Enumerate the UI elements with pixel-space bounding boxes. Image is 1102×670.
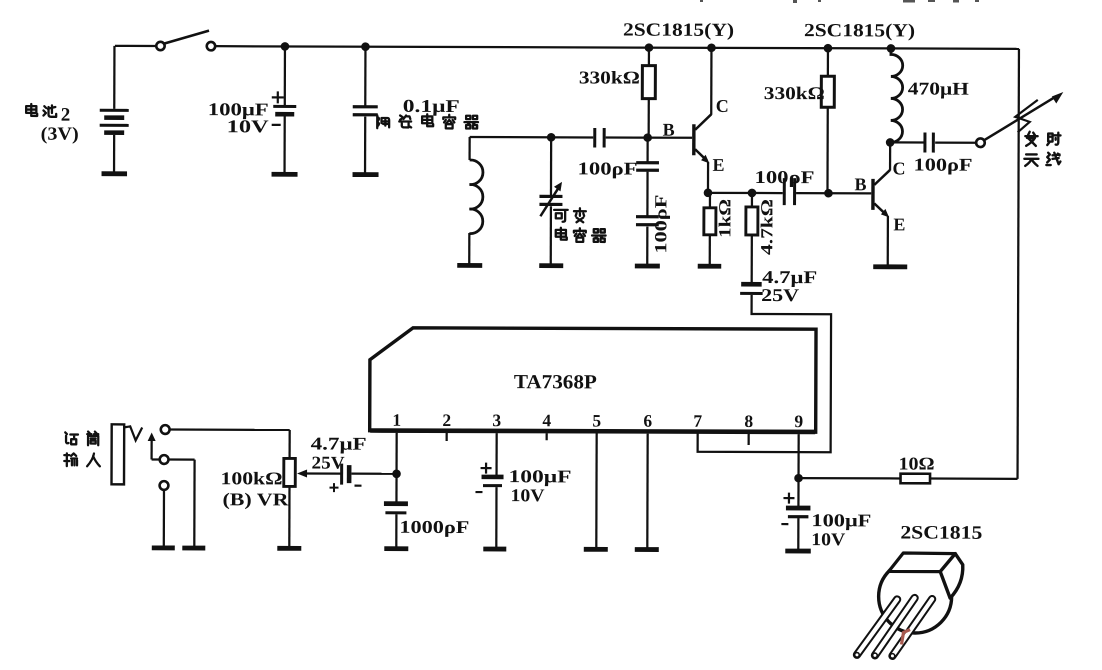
inductor L1 tank coil — [468, 137, 470, 160]
wire jack ring to ground — [152, 458, 160, 460]
label mic huatong shuru — [65, 432, 78, 444]
svg-text:4: 4 — [542, 410, 551, 430]
svg-text:B: B — [663, 120, 675, 140]
capacitor C2 0.1uF ceramic — [361, 42, 370, 51]
pin stub 4 — [546, 433, 548, 440]
label antenna fashe tianxian — [1025, 132, 1037, 146]
wire top supply rail — [115, 45, 156, 47]
svg-text:2SC1815: 2SC1815 — [900, 522, 982, 543]
microphone jack connector — [112, 424, 125, 484]
capacitor C12 100uF 10V pin9 — [797, 478, 799, 506]
svg-text:10V: 10V — [227, 116, 269, 136]
ground Q2 emitter — [873, 264, 907, 269]
svg-text:7: 7 — [693, 411, 702, 431]
ground C11 — [483, 547, 506, 552]
capacitor C9 1000pF — [395, 474, 397, 502]
plus minus C11 — [481, 467, 492, 469]
ground C2 — [353, 172, 379, 177]
ground C1 — [272, 172, 298, 177]
battery B1 3V — [113, 46, 115, 109]
wire pin9 node — [797, 434, 799, 478]
svg-text:100kΩ: 100kΩ — [220, 468, 282, 488]
svg-text:8: 8 — [744, 411, 753, 431]
ground C12 — [785, 549, 811, 554]
ground battery — [102, 171, 128, 176]
potentiometer VR 100k — [288, 430, 290, 458]
ground L1 — [457, 263, 482, 268]
wire pin6 to ground — [646, 434, 649, 548]
wire right supply drop — [1018, 49, 1019, 479]
svg-text:25V: 25V — [761, 285, 799, 305]
variable capacitor CV kebian — [550, 137, 552, 195]
svg-text:2: 2 — [442, 410, 451, 430]
jack terminal circles — [161, 425, 170, 434]
ground C9 — [384, 546, 408, 551]
pin stub 8 — [748, 434, 750, 445]
antenna terminal — [976, 138, 985, 147]
svg-text:E: E — [893, 214, 905, 234]
transistor Q1 2SC1815 — [692, 124, 696, 155]
wire pin1 — [395, 433, 397, 474]
svg-text:(3V): (3V) — [41, 125, 79, 145]
antenna zigzag — [1015, 100, 1038, 133]
svg-text:B: B — [854, 174, 866, 194]
svg-text:470μH: 470μH — [908, 78, 969, 98]
plus minus C12 — [783, 497, 794, 499]
svg-text:25V: 25V — [312, 453, 345, 473]
svg-text:100ρF: 100ρF — [914, 155, 973, 175]
resistor R1 330k — [645, 43, 654, 52]
ground CV — [539, 263, 563, 268]
wire jack tip to VR — [170, 428, 290, 431]
jack arrow contact — [150, 437, 152, 459]
wire oscillator base line — [470, 136, 594, 139]
capacitor C10 4.7uF 25V audio — [305, 472, 341, 474]
wire pin5 to ground — [595, 433, 598, 547]
inductor L2 470uH — [887, 44, 896, 53]
ground VR — [277, 546, 301, 551]
resistor R4 330k — [824, 44, 833, 53]
svg-text:C: C — [893, 158, 906, 178]
svg-text:2: 2 — [61, 105, 71, 126]
transistor Q2 2SC1815 — [871, 179, 875, 210]
ground jack ring — [182, 546, 205, 551]
ground jack sleeve — [152, 545, 175, 550]
transistor package TO-92 drawing — [855, 553, 963, 659]
capacitor C7 100pF interstage — [783, 178, 786, 205]
antenna arrow — [984, 96, 1057, 141]
resistor R3 4.7k — [751, 193, 753, 207]
svg-text:10V: 10V — [811, 529, 845, 549]
plus minus C10 — [329, 487, 338, 489]
pin stub 2 — [446, 433, 448, 441]
svg-text:2SC1815(Y): 2SC1815(Y) — [804, 21, 915, 41]
svg-text:100μF: 100μF — [509, 466, 572, 486]
svg-text:E: E — [713, 155, 725, 175]
capacitor C8 100pF antenna — [891, 141, 924, 143]
ground pin6 — [635, 547, 659, 552]
svg-text:6: 6 — [643, 411, 652, 431]
svg-text:0.1μF: 0.1μF — [403, 96, 460, 116]
svg-text:9: 9 — [794, 411, 803, 431]
wire jack sleeve to ground — [163, 490, 165, 546]
svg-text:330kΩ: 330kΩ — [764, 83, 825, 103]
plus sign C1 — [272, 96, 284, 98]
label CV kebian dianrongqi (variable capacitor) — [554, 210, 568, 222]
capacitor C5 100pF feedback lower — [646, 172, 648, 216]
ground R2 — [698, 264, 722, 269]
capacitor C4 100pF feedback upper — [646, 138, 648, 162]
svg-text:1: 1 — [392, 410, 401, 430]
capacitor C3 100pF coupling — [593, 128, 596, 148]
label battery dianchi 2 (3V) — [26, 104, 37, 116]
capacitor C1 100uF 10V — [281, 42, 290, 51]
svg-text:5: 5 — [592, 410, 601, 430]
wire emitter line stage1 — [708, 192, 783, 194]
svg-text:4.7kΩ: 4.7kΩ — [757, 199, 776, 255]
wiper arrow VR — [297, 469, 307, 477]
svg-text:1kΩ: 1kΩ — [715, 199, 734, 238]
svg-text:100μF: 100μF — [811, 510, 871, 530]
ground C5 — [635, 264, 660, 269]
svg-text:10V: 10V — [510, 485, 544, 505]
wire C6 to pin7 — [698, 295, 832, 452]
resistor R2 1k — [709, 193, 711, 208]
op-amp U1 TA7368P box — [370, 328, 816, 432]
ground pin5 — [584, 547, 608, 552]
red mark on lead — [901, 629, 910, 644]
svg-text:100ρF: 100ρF — [578, 158, 638, 178]
resistor R5 10 Ohm — [799, 477, 901, 480]
svg-text:100ρF: 100ρF — [651, 195, 670, 254]
wire C7 to Q2 base — [796, 192, 871, 194]
capacitor C11 100uF 10V pin3 — [495, 433, 497, 475]
svg-text:4.7μF: 4.7μF — [311, 434, 367, 454]
svg-text:2SC1815(Y): 2SC1815(Y) — [623, 21, 734, 41]
capacitor C6 4.7uF 25V — [741, 282, 762, 287]
svg-text:1000ρF: 1000ρF — [399, 517, 469, 537]
switch S1 — [156, 42, 164, 50]
svg-text:TA7368P: TA7368P — [514, 371, 597, 393]
svg-text:(B) VR: (B) VR — [222, 489, 289, 510]
svg-text:10Ω: 10Ω — [899, 453, 935, 473]
svg-text:C: C — [716, 96, 729, 116]
svg-text:3: 3 — [492, 410, 501, 430]
svg-text:330kΩ: 330kΩ — [579, 67, 640, 87]
svg-text:100ρF: 100ρF — [754, 167, 814, 187]
